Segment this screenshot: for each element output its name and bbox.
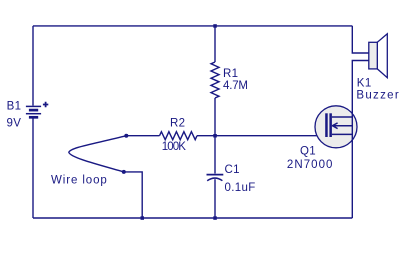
- svg-text:Q1: Q1: [300, 146, 316, 158]
- svg-text:R2: R2: [170, 118, 185, 130]
- svg-text:R1: R1: [223, 68, 238, 80]
- svg-text:B1: B1: [7, 101, 22, 113]
- svg-text:2N7000: 2N7000: [287, 159, 334, 171]
- svg-text:Buzzer: Buzzer: [356, 90, 400, 102]
- svg-text:Wire loop: Wire loop: [51, 174, 108, 186]
- svg-text:0.1uF: 0.1uF: [225, 182, 256, 194]
- svg-text:C1: C1: [225, 164, 240, 176]
- svg-text:9V: 9V: [7, 118, 22, 130]
- svg-text:K1: K1: [357, 78, 372, 90]
- svg-text:100K: 100K: [162, 141, 186, 153]
- svg-text:4.7M: 4.7M: [223, 80, 248, 92]
